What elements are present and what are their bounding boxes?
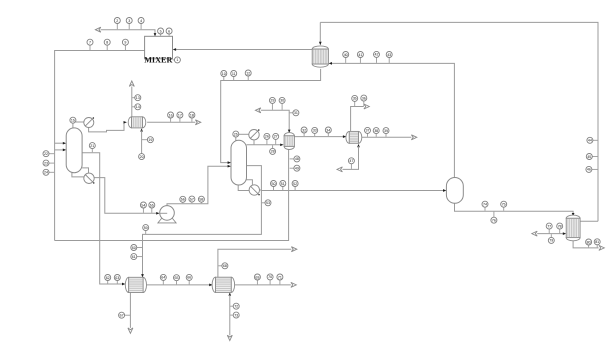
svg-text:39: 39 <box>384 129 388 133</box>
svg-text:3: 3 <box>128 19 130 23</box>
svg-text:30: 30 <box>280 99 284 103</box>
svg-text:79: 79 <box>549 239 553 243</box>
svg-text:44: 44 <box>588 139 592 143</box>
svg-text:40: 40 <box>344 53 348 57</box>
svg-text:70: 70 <box>268 275 272 279</box>
svg-text:1: 1 <box>176 58 178 62</box>
svg-text:76: 76 <box>492 218 496 222</box>
svg-text:42: 42 <box>375 53 379 57</box>
svg-text:9: 9 <box>124 40 126 44</box>
svg-text:50: 50 <box>272 182 276 186</box>
svg-text:64: 64 <box>161 276 165 280</box>
svg-text:68: 68 <box>223 264 227 268</box>
svg-text:17: 17 <box>178 113 182 117</box>
svg-text:38: 38 <box>374 129 378 133</box>
svg-text:20: 20 <box>140 155 144 159</box>
svg-text:55: 55 <box>150 203 154 207</box>
svg-text:31: 31 <box>294 111 298 115</box>
svg-text:65: 65 <box>175 276 179 280</box>
svg-text:21: 21 <box>90 144 94 148</box>
svg-text:63: 63 <box>115 276 119 280</box>
svg-text:MIXER: MIXER <box>144 56 172 65</box>
svg-text:19: 19 <box>148 138 152 142</box>
svg-text:51: 51 <box>281 182 285 186</box>
svg-text:66: 66 <box>187 276 191 280</box>
svg-text:11: 11 <box>232 72 236 76</box>
svg-text:35: 35 <box>353 97 357 101</box>
svg-text:80: 80 <box>587 240 591 244</box>
svg-text:2: 2 <box>116 19 118 23</box>
svg-text:24: 24 <box>44 171 48 175</box>
svg-text:32: 32 <box>302 128 306 132</box>
svg-text:25: 25 <box>234 132 238 136</box>
svg-text:14: 14 <box>136 105 140 109</box>
svg-text:13: 13 <box>136 96 140 100</box>
svg-text:58: 58 <box>199 197 203 201</box>
svg-text:34: 34 <box>326 128 330 132</box>
svg-text:78: 78 <box>558 224 562 228</box>
svg-text:46: 46 <box>587 168 591 172</box>
svg-text:52: 52 <box>293 182 297 186</box>
svg-text:7: 7 <box>89 40 91 44</box>
svg-text:43: 43 <box>387 53 391 57</box>
svg-text:28: 28 <box>271 150 275 154</box>
svg-text:59: 59 <box>144 226 148 230</box>
svg-text:74: 74 <box>483 202 487 206</box>
svg-text:27: 27 <box>274 135 278 139</box>
svg-text:18: 18 <box>190 113 194 117</box>
svg-text:67: 67 <box>120 313 124 317</box>
svg-text:29: 29 <box>270 99 274 103</box>
svg-text:6: 6 <box>168 29 170 33</box>
svg-text:56: 56 <box>181 198 185 202</box>
svg-text:60: 60 <box>132 246 136 250</box>
svg-text:81: 81 <box>595 240 599 244</box>
svg-text:71: 71 <box>278 275 282 279</box>
svg-text:16: 16 <box>169 113 173 117</box>
svg-text:49: 49 <box>295 166 299 170</box>
svg-text:48: 48 <box>295 157 299 161</box>
svg-text:26: 26 <box>265 135 269 139</box>
svg-text:37: 37 <box>366 129 370 133</box>
svg-text:47: 47 <box>349 159 353 163</box>
svg-text:36: 36 <box>362 96 366 100</box>
svg-text:45: 45 <box>587 155 591 159</box>
svg-text:4: 4 <box>140 19 142 23</box>
svg-text:22: 22 <box>44 152 48 156</box>
svg-text:15: 15 <box>71 118 75 122</box>
svg-text:54: 54 <box>141 203 145 207</box>
svg-text:10: 10 <box>222 72 226 76</box>
svg-text:53: 53 <box>266 201 270 205</box>
svg-text:61: 61 <box>132 255 136 259</box>
svg-text:77: 77 <box>547 224 551 228</box>
svg-text:23: 23 <box>44 161 48 165</box>
svg-text:57: 57 <box>190 197 194 201</box>
svg-text:33: 33 <box>313 129 317 133</box>
svg-text:75: 75 <box>502 202 506 206</box>
svg-text:5: 5 <box>160 29 162 33</box>
svg-text:69: 69 <box>255 275 259 279</box>
svg-text:62: 62 <box>106 276 110 280</box>
svg-text:8: 8 <box>106 40 108 44</box>
svg-text:41: 41 <box>358 53 362 57</box>
svg-text:72: 72 <box>234 304 238 308</box>
svg-text:12: 12 <box>246 71 250 75</box>
svg-text:73: 73 <box>234 313 238 317</box>
